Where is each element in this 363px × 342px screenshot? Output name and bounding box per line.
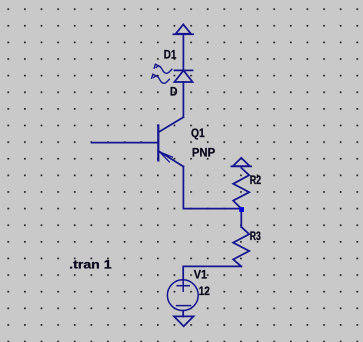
wire flag to diode (182, 34, 184, 70)
svg-text:R2: R2 (250, 173, 262, 187)
ground (174, 316, 194, 326)
svg-text:D1: D1 (164, 48, 177, 62)
wire junction to R3 (240, 209, 242, 227)
resistor R2 (233, 166, 249, 208)
wire V1 to ground (182, 311, 184, 317)
node junction emitter/R2/R3 (239, 207, 244, 212)
diode D1 radiation arrows (152, 64, 172, 83)
svg-text:.tran 1: .tran 1 (69, 258, 112, 272)
svg-text:12: 12 (199, 284, 210, 298)
diode D1 (174, 70, 192, 82)
svg-text:Q1: Q1 (191, 126, 205, 140)
svg-text:R3: R3 (250, 229, 261, 243)
wire emitter to junction (183, 167, 240, 209)
voltage source V1 (167, 280, 198, 311)
svg-text:V1: V1 (194, 267, 208, 281)
wire diode to collector (182, 82, 184, 117)
power flag (top) (173, 24, 193, 34)
resistor R3 (233, 227, 249, 267)
svg-text:PNP: PNP (192, 146, 215, 160)
transistor Q1 (92, 117, 184, 166)
svg-text:D: D (170, 85, 178, 99)
wire R3 to V1 (183, 266, 241, 280)
power flag (R2 top) (231, 158, 251, 167)
